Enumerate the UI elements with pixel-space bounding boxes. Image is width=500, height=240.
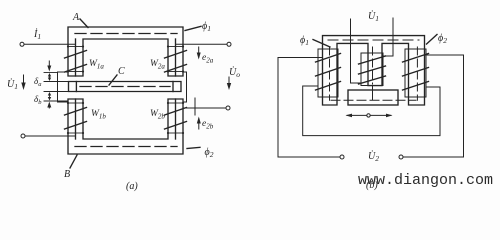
winding right (b) [403, 49, 429, 97]
core A (top U-core, figure a) [68, 27, 183, 76]
svg-text:www.diangon.com: www.diangon.com [358, 172, 493, 189]
winding center primary (b) [359, 53, 386, 86]
armature C dashed centerline [80, 86, 170, 88]
flux dashes center leg (b) [372, 47, 374, 84]
small gap arrow delta-b [49, 94, 51, 100]
svg-text:B: B [64, 169, 70, 180]
U1 arrow (down) [23, 75, 25, 87]
outer loop wire right (b) [404, 55, 464, 157]
armature bar (b) [348, 90, 398, 105]
label phi2 pointer [187, 147, 200, 148]
series link wire right (W2a to W2b) [183, 72, 187, 102]
svg-text:A: A [72, 12, 80, 23]
arrow below delta-b (up) [48, 105, 50, 108]
series link wire left (W1a to W1b) [58, 72, 68, 102]
winding left (b) [316, 49, 341, 97]
air gap extension line armature bottom [44, 91, 69, 93]
motion double arrow (b) [346, 114, 393, 118]
winding W1b [65, 99, 87, 139]
air gap extension line armature top [44, 81, 69, 83]
arrow above delta-a (down) [48, 61, 50, 68]
armature C end divider [172, 82, 174, 92]
label phi2 (b) pointer [427, 35, 438, 45]
small gap arrow delta-a [49, 75, 51, 80]
winding W2a [165, 39, 187, 76]
terminal top-left [20, 42, 24, 46]
svg-text:(a): (a) [126, 181, 138, 192]
terminal bottom-left [21, 134, 25, 138]
core E-shape (figure b) [323, 36, 425, 105]
wire bottom-right output [184, 107, 227, 109]
label phi1 (b) pointer [313, 40, 330, 48]
outer loop wire left (b) [278, 58, 340, 158]
terminal bottom-right [226, 106, 230, 110]
winding W1a [65, 39, 87, 76]
winding terminal dots [67, 45, 69, 47]
winding W2b [165, 99, 187, 139]
label C pointer [109, 75, 117, 85]
label B pointer [70, 155, 77, 168]
inner loop wire (b) [303, 86, 440, 136]
Uo arrow (down) [228, 77, 230, 87]
primary feed wire left (b) [351, 19, 362, 83]
primary feed wire right (b) [383, 18, 393, 56]
emf e2b arrow (up) [198, 119, 200, 129]
label A pointer [80, 19, 88, 28]
emf e2a arrow (down) [198, 47, 200, 57]
wire I1 input top-left [24, 43, 76, 45]
terminal U2 left [340, 155, 344, 159]
air gap extension line top [44, 72, 58, 74]
wire top-right to output terminal [176, 43, 228, 45]
wire bottom-left input [25, 135, 76, 137]
core B (bottom U-core, figure a) [68, 99, 183, 154]
terminal top-right [227, 42, 231, 46]
stray junction line near W2b [194, 98, 196, 115]
label phi1 pointer [185, 26, 201, 30]
flux path phi1 dashed line [75, 33, 177, 35]
svg-text:C: C [118, 66, 125, 77]
air gap extension line bottom [44, 100, 68, 102]
flux path phi2 dashed line [75, 146, 177, 148]
flux dashes right leg (b) [416, 47, 418, 100]
flux connector center leg to armature (b) [372, 86, 374, 100]
terminal U2 right [399, 155, 403, 159]
armature C (middle bar) [69, 82, 182, 92]
flux dashes top bar (b) [328, 39, 419, 41]
flux dashes left leg (b) [329, 47, 331, 100]
armature dashed centerline (b) [331, 99, 416, 101]
